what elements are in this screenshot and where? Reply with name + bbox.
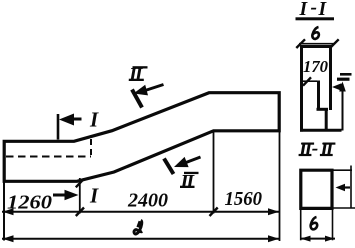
svg-text:I: I (299, 0, 309, 20)
svg-text:170: 170 (303, 57, 328, 76)
svg-text:I: I (89, 184, 99, 208)
svg-text:-: - (311, 0, 318, 19)
svg-text:1560: 1560 (225, 189, 263, 210)
svg-text:-: - (312, 139, 319, 160)
svg-text:1260: 1260 (7, 193, 52, 214)
svg-text:2400: 2400 (127, 191, 168, 212)
svg-text:I: I (89, 108, 99, 132)
svg-text:I: I (318, 0, 328, 20)
